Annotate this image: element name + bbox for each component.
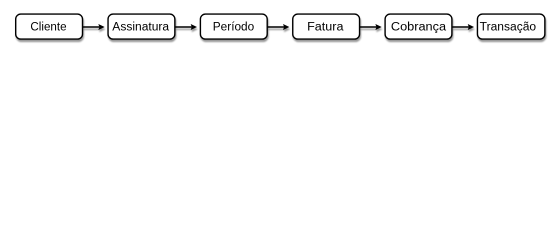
svg-text:Período: Período [213, 22, 254, 34]
wire Fatura->Cobranca [360, 26, 377, 28]
svg-text:Transação: Transação [480, 22, 536, 34]
wire Cobranca->Transacao [452, 26, 469, 28]
svg-text:Fatura: Fatura [307, 22, 344, 34]
svg-text:Cobrança: Cobrança [391, 22, 447, 34]
wire Periodo->Fatura [267, 26, 284, 28]
svg-text:Assinatura: Assinatura [112, 22, 169, 34]
node Fatura box [293, 14, 360, 39]
arrowhead Cliente->Assinatura [98, 24, 104, 30]
arrowhead Fatura->Cobranca [375, 24, 381, 30]
node Periodo box [200, 14, 267, 39]
wire Cliente->Assinatura [83, 26, 100, 28]
node Transacao box [477, 14, 544, 39]
node Assinatura box [108, 14, 175, 39]
wire Assinatura->Periodo [175, 26, 192, 28]
node Cobranca box [385, 14, 452, 39]
arrowhead Assinatura->Periodo [191, 24, 197, 30]
arrowhead Periodo->Fatura [283, 24, 289, 30]
node Cliente box [16, 14, 83, 39]
arrowhead Cobranca->Transacao [468, 24, 474, 30]
svg-text:Cliente: Cliente [30, 22, 66, 34]
